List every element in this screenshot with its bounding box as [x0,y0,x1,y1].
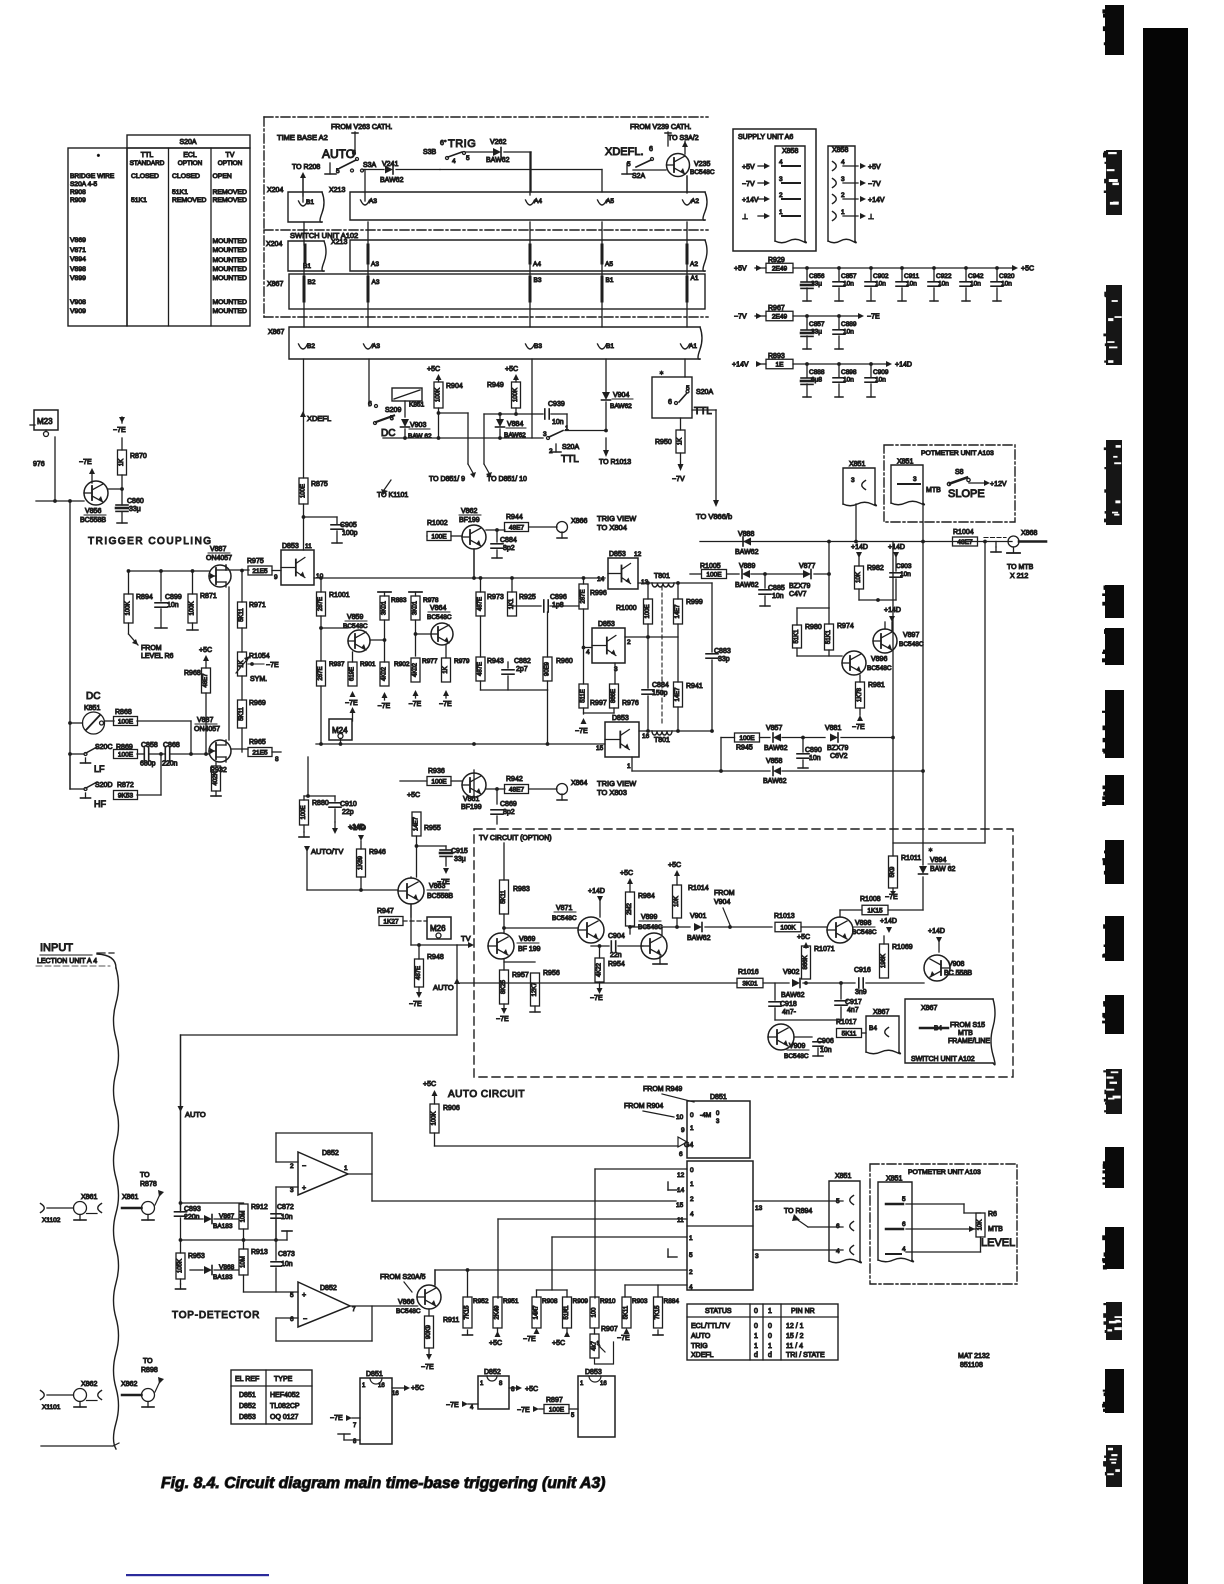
svg-text:8p2: 8p2 [503,545,515,552]
svg-text:✶: ✶ [533,1308,537,1314]
svg-text:X204: X204 [266,241,282,248]
svg-text:3: 3 [779,176,783,183]
svg-text:5: 5 [390,415,394,422]
svg-text:V904: V904 [714,899,730,906]
svg-text:10n: 10n [1001,281,1012,288]
svg-text:FROM R949: FROM R949 [643,1086,682,1093]
svg-text:0: 0 [768,1323,772,1330]
svg-text:MTB: MTB [958,1030,973,1037]
svg-text:V894: V894 [930,857,946,864]
svg-text:V877: V877 [799,563,815,570]
svg-text:BAW62: BAW62 [486,157,510,164]
svg-text:−7E: −7E [885,894,898,901]
svg-text:BAW62: BAW62 [380,177,404,184]
svg-text:−7V: −7V [868,181,881,188]
svg-text:R947: R947 [377,908,394,915]
svg-text:R965: R965 [249,739,266,746]
svg-text:V235: V235 [694,161,710,168]
svg-text:R908: R908 [70,189,86,196]
svg-text:C915: C915 [451,848,468,855]
svg-text:R969: R969 [249,700,266,707]
svg-text:X861: X861 [81,1194,97,1201]
svg-text:R984: R984 [638,893,655,900]
svg-text:+5C: +5C [199,647,212,654]
svg-text:TRIG: TRIG [691,1343,708,1350]
svg-text:BAW62: BAW62 [763,778,787,785]
svg-text:+5C: +5C [552,1340,565,1347]
svg-text:33μ: 33μ [811,281,822,288]
svg-text:A2: A2 [690,261,698,268]
svg-text:OPEN: OPEN [213,173,232,180]
svg-text:TTL: TTL [141,152,154,159]
svg-text:OPTION: OPTION [178,160,203,167]
svg-text:100E: 100E [706,571,722,578]
svg-text:C857: C857 [841,273,857,280]
svg-text:V896: V896 [871,656,887,663]
svg-text:V871: V871 [70,247,86,254]
svg-text:48E7: 48E7 [957,539,973,546]
svg-text:−7E: −7E [852,724,865,731]
svg-text:REMOVED: REMOVED [172,197,206,204]
svg-text:3K01: 3K01 [742,980,758,987]
svg-text:MTB: MTB [926,487,941,494]
svg-text:10K: 10K [674,896,680,907]
svg-text:33p: 33p [718,656,730,663]
svg-text:R957: R957 [512,972,529,979]
svg-text:C909: C909 [873,369,889,376]
svg-text:C883: C883 [714,648,731,655]
svg-text:BC548C: BC548C [867,665,892,672]
svg-text:R943: R943 [487,658,504,665]
svg-text:FROM V239 CATH.: FROM V239 CATH. [630,124,691,131]
svg-text:+5C: +5C [797,934,810,941]
svg-text:X862: X862 [121,1381,137,1388]
svg-text:R925: R925 [519,594,536,601]
svg-text:16: 16 [642,733,650,740]
svg-text:C873: C873 [278,1251,295,1258]
svg-text:16: 16 [392,1391,399,1397]
svg-text:TO S3A/2: TO S3A/2 [668,135,699,142]
svg-text:C884: C884 [500,537,517,544]
svg-text:22p: 22p [342,809,354,816]
svg-text:6: 6 [290,1316,294,1323]
svg-text:+5C: +5C [407,792,420,799]
svg-text:2K49: 2K49 [495,1305,501,1320]
svg-text:100E: 100E [431,533,447,540]
svg-text:8p2: 8p2 [503,809,515,816]
svg-text:STANDARD: STANDARD [130,160,165,167]
svg-text:3: 3 [755,1253,759,1260]
svg-text:R910: R910 [600,1298,616,1305]
svg-text:1E: 1E [776,361,785,368]
svg-text:BC558B: BC558B [427,893,453,900]
svg-text:−7E: −7E [378,703,391,710]
svg-text:R960: R960 [556,658,573,665]
svg-text:R1002: R1002 [427,520,448,527]
svg-text:100E: 100E [645,604,651,618]
svg-text:TRIG VIEW: TRIG VIEW [597,779,637,788]
svg-text:R1071: R1071 [814,946,835,953]
svg-text:10n: 10n [843,281,854,288]
svg-text:R941: R941 [686,683,703,690]
svg-text:TTL: TTL [561,454,579,465]
svg-text:C916: C916 [854,967,871,974]
svg-text:R981: R981 [868,682,885,689]
svg-text:9: 9 [681,1127,685,1134]
svg-text:48E7: 48E7 [509,786,525,793]
svg-text:866E: 866E [611,689,617,703]
svg-text:51K1: 51K1 [794,629,800,644]
svg-text:R875: R875 [311,481,328,488]
svg-text:V881: V881 [825,725,841,732]
svg-text:BF199: BF199 [461,804,482,811]
svg-text:BZX79: BZX79 [827,745,849,752]
svg-text:POTMETER UNIT A103: POTMETER UNIT A103 [921,450,994,457]
svg-text:D851: D851 [239,1392,256,1399]
svg-text:14E7: 14E7 [414,816,420,831]
svg-text:+14V: +14V [868,197,885,204]
svg-text:+5C: +5C [505,366,518,373]
svg-text:A4: A4 [534,198,542,205]
svg-text:MTB: MTB [988,1226,1003,1233]
svg-text:MOUNTED: MOUNTED [213,299,247,306]
svg-text:D853: D853 [585,1369,602,1376]
svg-text:SWITCH UNIT A102: SWITCH UNIT A102 [290,231,358,240]
svg-text:R1011: R1011 [901,855,921,862]
svg-text:A3: A3 [372,279,380,286]
svg-text:FROM: FROM [141,645,162,652]
svg-text:R901: R901 [360,661,376,668]
svg-text:V901: V901 [690,913,706,920]
svg-text:ON4057: ON4057 [206,555,232,562]
svg-text:680p: 680p [140,761,156,768]
svg-text:ECL/TTL/TV: ECL/TTL/TV [691,1323,730,1330]
svg-text:BAW62: BAW62 [764,745,788,752]
svg-text:6: 6 [668,399,672,406]
svg-text:C910: C910 [340,801,357,808]
svg-text:1K27: 1K27 [383,918,399,925]
svg-text:R909: R909 [70,197,86,204]
svg-text:C920: C920 [999,273,1015,280]
svg-text:REMOVED: REMOVED [213,189,247,196]
svg-text:51K1: 51K1 [826,629,832,644]
svg-text:4: 4 [841,159,845,166]
svg-text:X1102: X1102 [42,1217,61,1224]
svg-text:+5C: +5C [411,1385,424,1392]
svg-text:Fig. 8.4. Circuit diagram main: Fig. 8.4. Circuit diagram main time-base… [161,1475,605,1492]
svg-text:BF199: BF199 [459,517,480,524]
svg-text:−7E: −7E [496,1016,509,1023]
svg-text:2: 2 [627,639,631,646]
svg-text:V864: V864 [430,605,446,612]
svg-text:FROM R904: FROM R904 [624,1103,663,1110]
svg-text:TO D851/ 9: TO D851/ 9 [429,476,465,483]
svg-text:TO R208: TO R208 [292,164,320,171]
svg-text:+14D: +14D [928,928,945,935]
svg-text:10n: 10n [809,755,821,762]
svg-text:+14V: +14V [732,362,749,369]
svg-text:R980: R980 [805,624,822,631]
svg-text:10n: 10n [281,1261,293,1268]
svg-text:1: 1 [627,763,631,770]
svg-text:C922: C922 [936,273,952,280]
svg-text:FROM V263 CATH.: FROM V263 CATH. [331,124,392,131]
svg-text:⊥: ⊥ [868,214,874,221]
svg-text:B1: B1 [606,277,614,284]
svg-text:10n: 10n [843,377,854,384]
svg-text:HEF4052: HEF4052 [270,1392,300,1399]
svg-text:7: 7 [352,1306,356,1313]
svg-text:V862: V862 [461,508,477,515]
svg-text:−7E: −7E [266,662,279,669]
svg-text:−7E: −7E [113,427,126,434]
svg-text:13: 13 [755,1205,763,1212]
svg-text:B1: B1 [606,343,614,350]
svg-text:LEVEL: LEVEL [981,1237,1015,1249]
svg-text:14E7: 14E7 [675,604,681,619]
svg-text:10M: 10M [241,1256,247,1268]
svg-text:C918: C918 [780,1001,797,1008]
svg-text:10n: 10n [875,377,886,384]
svg-text:10n: 10n [906,281,917,288]
svg-text:X868: X868 [1021,530,1037,537]
svg-text:+14D: +14D [588,888,605,895]
svg-text:TO MTB: TO MTB [1007,564,1034,571]
svg-text:6: 6 [902,1221,906,1228]
svg-text:10n: 10n [970,281,981,288]
svg-text:V898: V898 [70,266,86,273]
svg-text:R911: R911 [443,1317,459,1324]
svg-text:X867: X867 [873,1009,889,1016]
svg-text:V858: V858 [766,758,782,765]
svg-text:2E49: 2E49 [772,313,788,320]
svg-text:11: 11 [305,543,312,550]
svg-text:−: − [303,1316,307,1323]
svg-text:FROM S20A/5: FROM S20A/5 [380,1274,426,1281]
svg-text:5: 5 [902,1196,906,1203]
svg-text:9: 9 [274,574,278,581]
svg-text:8: 8 [499,1381,503,1387]
svg-text:0: 0 [690,1167,694,1174]
svg-text:X862: X862 [81,1381,97,1388]
svg-text:BC548C: BC548C [427,614,452,621]
svg-text:3: 3 [851,477,855,484]
svg-text:10n: 10n [820,1047,832,1054]
svg-text:5K9: 5K9 [890,866,896,877]
svg-text:R872: R872 [117,782,134,789]
svg-text:10K: 10K [978,1220,984,1231]
svg-text:A3: A3 [371,261,379,268]
svg-text:C911: C911 [904,273,919,280]
svg-text:X851: X851 [849,461,865,468]
svg-text:7K15: 7K15 [465,1305,471,1320]
svg-text:100E: 100E [431,778,447,785]
svg-text:BA183: BA183 [213,1223,233,1230]
svg-text:287E: 287E [581,589,587,603]
svg-text:619E: 619E [350,667,356,681]
svg-text:C902: C902 [873,273,889,280]
svg-text:M26: M26 [430,924,446,933]
svg-text:0: 0 [754,1308,758,1315]
svg-text:TO V866/b: TO V866/b [696,512,732,521]
svg-text:C899: C899 [165,594,182,601]
svg-text:A5: A5 [606,198,614,205]
svg-text:C860: C860 [127,498,144,505]
svg-text:R956: R956 [543,970,560,977]
svg-text:−7E: −7E [617,1335,630,1342]
svg-text:BC548C: BC548C [852,929,877,936]
svg-text:220n: 220n [184,1214,200,1221]
svg-text:V899: V899 [70,275,86,282]
svg-text:R950: R950 [655,439,672,446]
svg-text:A1: A1 [689,343,697,350]
svg-text:AUTO CIRCUIT: AUTO CIRCUIT [448,1089,525,1100]
svg-text:+5V: +5V [734,266,747,273]
svg-text:BAW 62: BAW 62 [408,433,432,440]
svg-text:V871: V871 [556,905,572,912]
svg-text:C872: C872 [277,1204,294,1211]
svg-text:1: 1 [754,1343,758,1350]
svg-text:LEVEL R6: LEVEL R6 [141,653,174,660]
svg-text:100E: 100E [118,751,134,758]
svg-text:AUTO: AUTO [322,147,355,161]
svg-text:S3A: S3A [363,162,377,169]
svg-text:R912: R912 [251,1204,268,1211]
svg-text:4: 4 [836,1248,840,1255]
svg-text:−7V: −7V [742,181,755,188]
svg-text:−7E: −7E [867,314,880,321]
svg-text:12 / 1: 12 / 1 [786,1323,804,1330]
svg-text:100: 100 [592,1307,598,1318]
svg-text:R1014: R1014 [688,885,709,892]
svg-text:V241: V241 [382,161,398,168]
svg-text:S20A: S20A [696,389,713,396]
svg-text:TIME BASE A2: TIME BASE A2 [277,133,328,142]
svg-text:4: 4 [452,158,456,165]
svg-text:K851: K851 [84,705,100,712]
svg-text:100E: 100E [301,484,307,498]
svg-text:R983: R983 [513,886,530,893]
svg-text:5K11: 5K11 [624,1305,630,1319]
svg-text:R937: R937 [329,661,345,668]
svg-text:S20A: S20A [179,139,196,146]
svg-text:R999: R999 [686,599,703,606]
svg-text:•: • [97,151,100,160]
svg-text:V888: V888 [738,531,754,538]
svg-text:BZX79: BZX79 [789,583,811,590]
svg-text:10n: 10n [281,1214,293,1221]
svg-text:POTMETER UNIT A103: POTMETER UNIT A103 [908,1169,981,1176]
svg-text:TO R894: TO R894 [784,1208,812,1215]
svg-text:11 / 4: 11 / 4 [786,1343,803,1350]
svg-text:TV: TV [461,934,471,943]
svg-text:PIN NR: PIN NR [791,1308,815,1315]
svg-text:TOP-DETECTOR: TOP-DETECTOR [172,1310,260,1321]
svg-text:C858: C858 [141,742,158,749]
svg-text:R976: R976 [622,700,639,707]
svg-text:C893: C893 [184,1206,201,1213]
svg-text:487E: 487E [478,597,484,611]
svg-text:−7E: −7E [79,459,92,466]
svg-text:1p8: 1p8 [552,602,564,609]
svg-text:100K: 100K [513,388,519,402]
svg-text:4: 4 [779,159,783,166]
svg-text:V262: V262 [490,139,506,146]
svg-text:XDEFL.: XDEFL. [605,146,644,158]
svg-text:1: 1 [580,1381,584,1387]
svg-text:0: 0 [768,1333,772,1340]
svg-text:TO K1101: TO K1101 [377,492,408,499]
svg-text:1: 1 [768,1343,772,1350]
svg-text:OPTION: OPTION [218,160,243,167]
svg-text:6μ8: 6μ8 [811,377,822,384]
svg-text:MOUNTED: MOUNTED [213,238,247,245]
svg-text:5: 5 [689,1252,693,1259]
svg-text:+: + [302,1185,306,1192]
svg-text:C939: C939 [548,401,565,408]
svg-text:D853: D853 [282,543,299,550]
svg-text:16: 16 [378,1383,385,1389]
svg-text:B1: B1 [306,199,314,206]
svg-text:CLOSED: CLOSED [131,173,159,180]
svg-text:851108: 851108 [960,1362,983,1369]
svg-text:V908: V908 [70,299,86,306]
svg-text:1: 1 [689,1235,693,1242]
svg-text:−7V: −7V [734,314,747,321]
svg-text:R954: R954 [608,961,625,968]
svg-text:D852: D852 [239,1403,256,1410]
svg-text:TO X804: TO X804 [597,523,627,532]
svg-text:V861: V861 [463,796,479,803]
svg-text:C857: C857 [809,321,825,328]
svg-text:R1004: R1004 [953,529,974,536]
svg-text:976: 976 [33,461,45,468]
svg-text:21E5: 21E5 [252,568,268,575]
svg-text:V866: V866 [398,1299,414,1306]
svg-text:A5: A5 [605,261,613,268]
svg-text:R897: R897 [546,1397,563,1404]
svg-text:100E: 100E [118,718,134,725]
svg-text:X867: X867 [267,281,283,288]
svg-text:1: 1 [690,1181,694,1188]
svg-text:TV CIRCUIT (OPTION): TV CIRCUIT (OPTION) [479,835,552,842]
svg-text:3K01: 3K01 [382,600,388,615]
svg-text:48E7: 48E7 [509,524,525,531]
svg-text:100E: 100E [301,805,307,819]
svg-text:8: 8 [511,1386,515,1393]
svg-text:R973: R973 [487,594,504,601]
svg-text:A4: A4 [533,261,541,268]
svg-text:S20A 4-5: S20A 4-5 [70,181,97,188]
svg-text:3: 3 [841,176,845,183]
svg-text:−7E: −7E [590,995,603,1002]
svg-text:14E7: 14E7 [675,687,681,702]
svg-text:10M: 10M [241,1211,247,1223]
svg-text:TTL: TTL [694,406,712,417]
svg-text:BA183: BA183 [213,1274,233,1281]
svg-text:X867: X867 [268,329,284,336]
svg-text:R974: R974 [837,623,854,630]
svg-text:511E: 511E [581,689,587,703]
svg-text:+14V: +14V [742,197,759,204]
svg-text:TV: TV [226,152,235,159]
svg-text:BC 558B: BC 558B [944,970,972,977]
svg-text:R1001: R1001 [329,592,350,599]
svg-text:SUPPLY UNIT A6: SUPPLY UNIT A6 [738,134,793,141]
svg-text:BRIDGE WIRE: BRIDGE WIRE [70,173,115,180]
svg-text:−7E: −7E [345,700,358,707]
svg-text:4: 4 [470,1405,474,1411]
